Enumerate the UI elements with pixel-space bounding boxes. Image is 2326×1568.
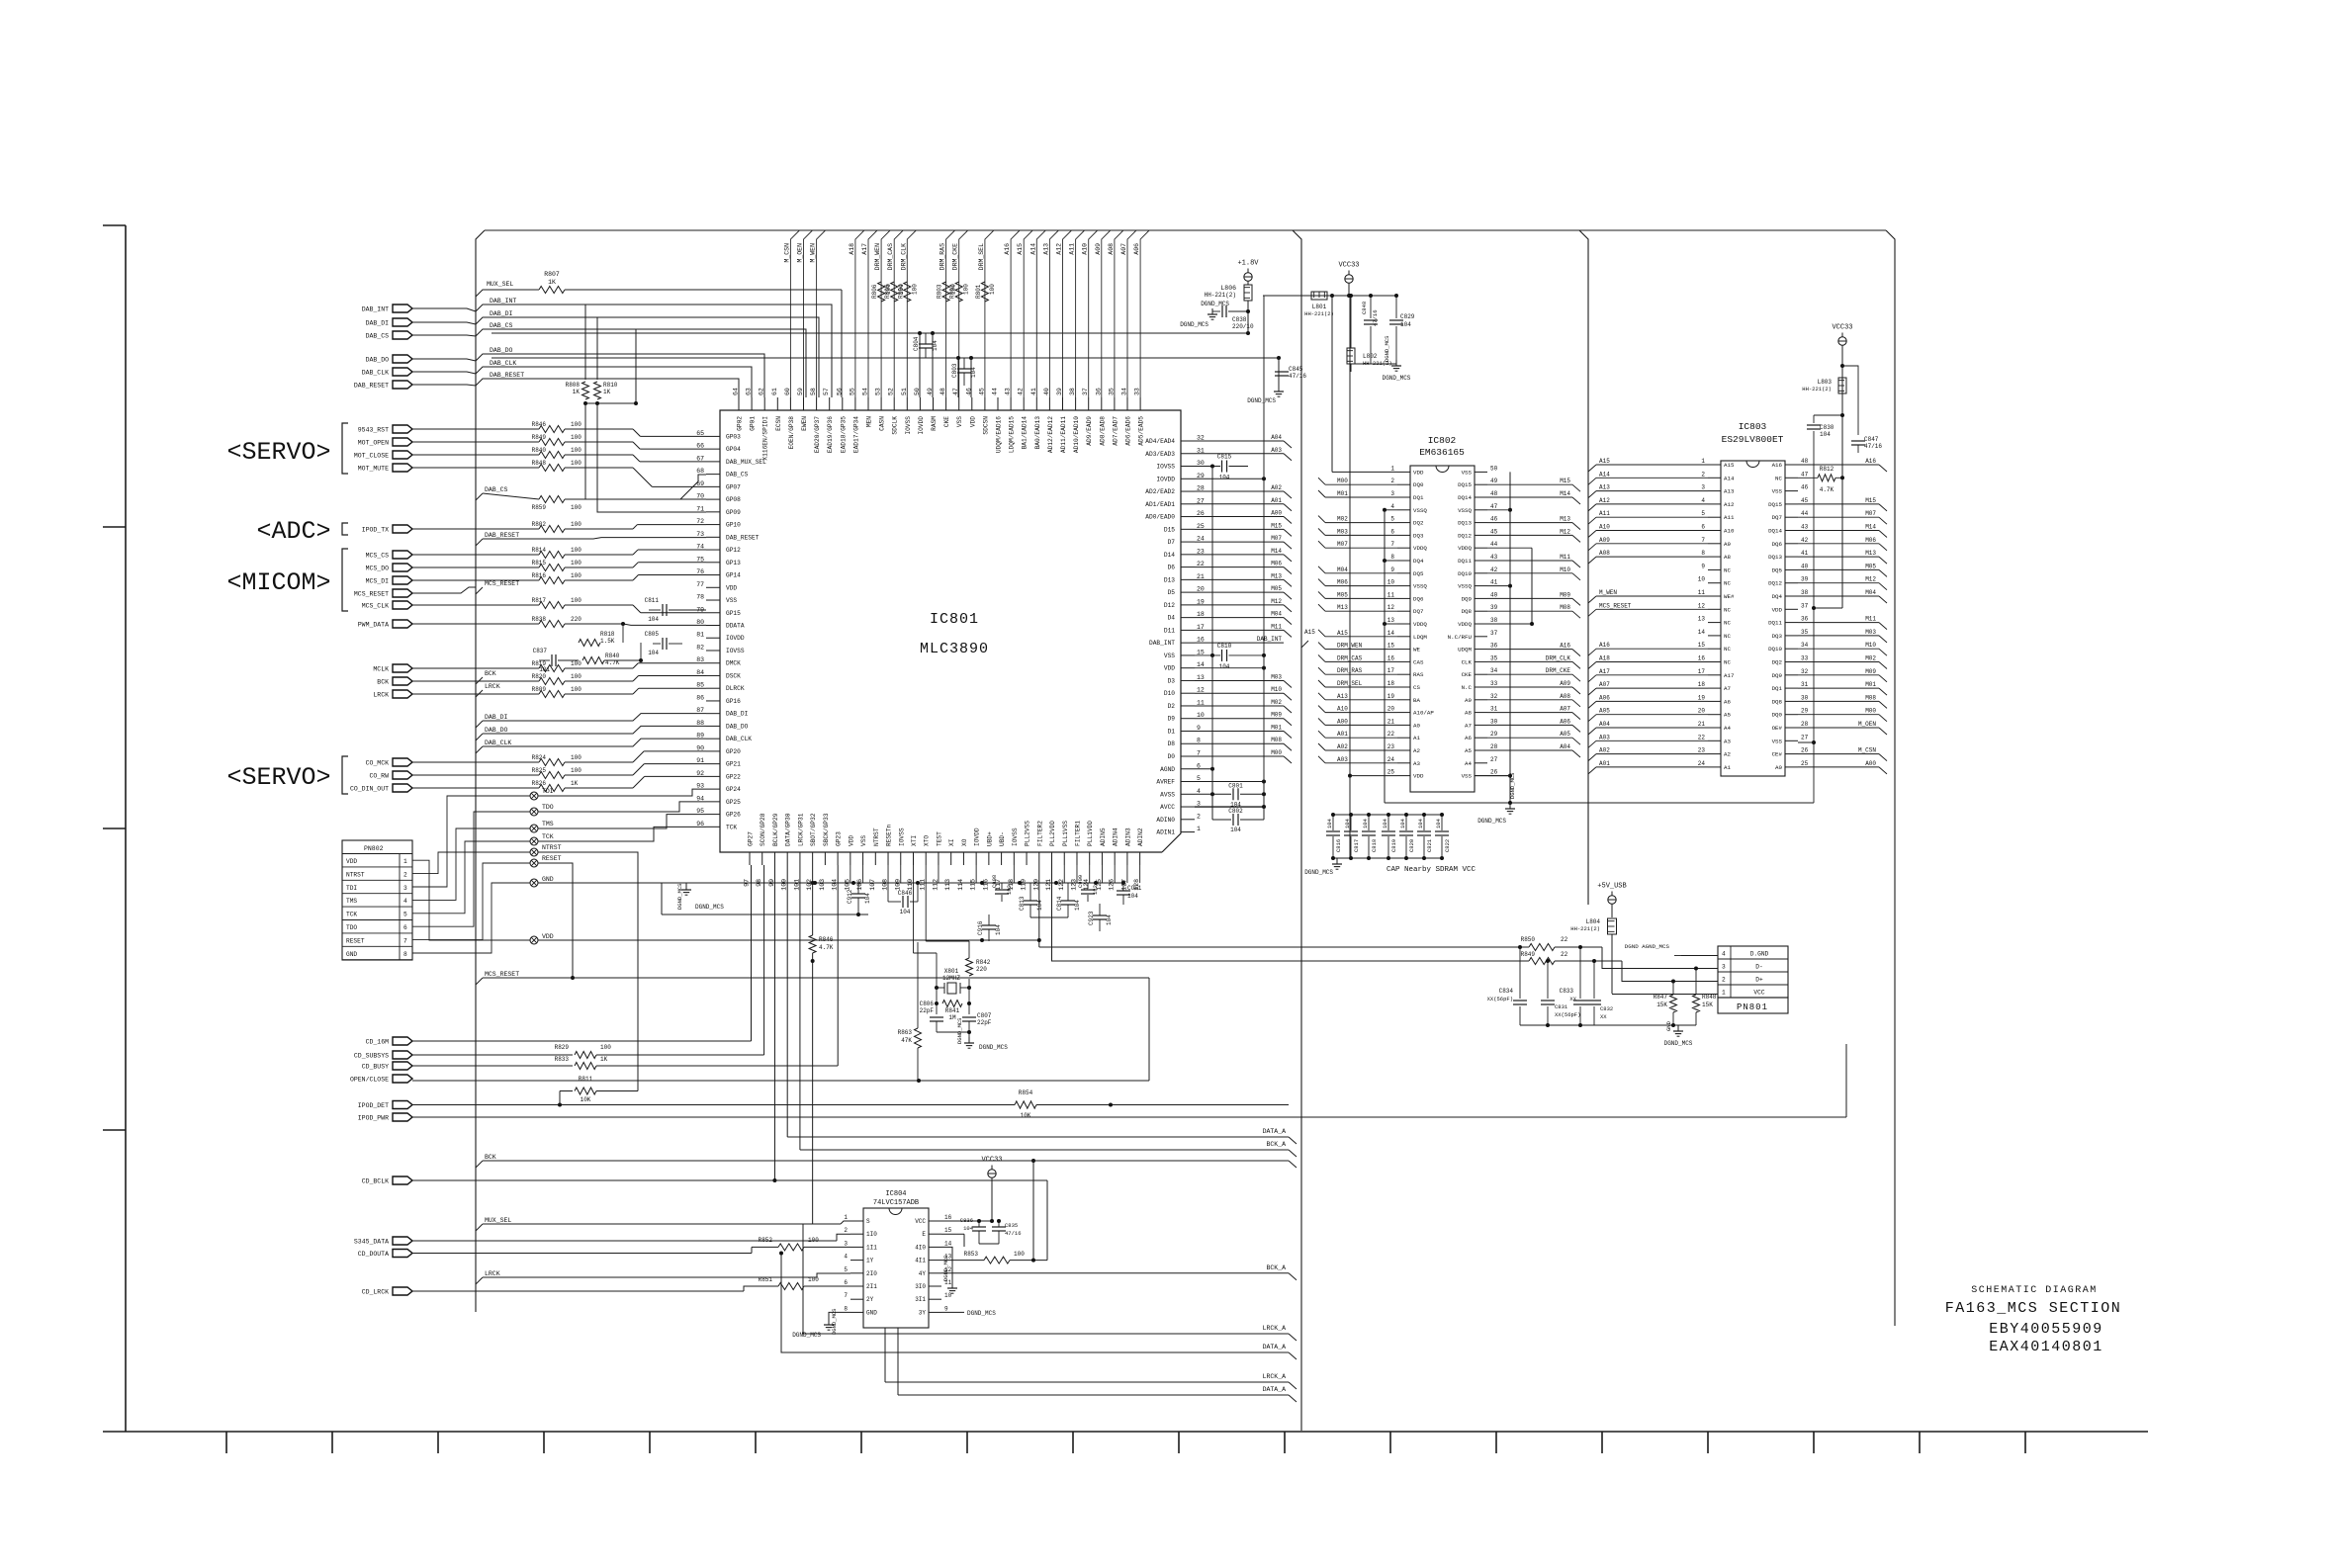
svg-text:FILTER2: FILTER2 (1036, 821, 1043, 846)
wire IC803 pin18 left (1596, 687, 1708, 689)
svg-text:28: 28 (1197, 485, 1205, 492)
wire IC802 pin 14 left (1318, 630, 1325, 637)
svg-text:C817: C817 (1353, 839, 1360, 852)
wire pin100 drop DATA_A (786, 865, 788, 1137)
svg-text:23: 23 (1197, 548, 1205, 555)
wire vcc33 down (1348, 283, 1350, 296)
IC801 pin 86 stub (706, 700, 720, 702)
IC801 pin 26 stub (1181, 516, 1195, 518)
svg-text:2: 2 (1701, 471, 1705, 478)
wire TDI to pin 93 (538, 789, 706, 796)
svg-text:22: 22 (1561, 936, 1568, 943)
wire UBD- long (1052, 865, 1529, 961)
svg-text:C835: C835 (1005, 1222, 1018, 1229)
wire A16 vertical to top bus (1011, 230, 1020, 397)
svg-text:D3: D3 (1168, 677, 1176, 684)
svg-text:VSSQ: VSSQ (1458, 507, 1472, 514)
wire IC802 pin 10 left (1318, 579, 1325, 586)
svg-text:UBD-: UBD- (999, 831, 1006, 846)
svg-text:R802: R802 (532, 521, 547, 528)
svg-text:A02: A02 (1337, 743, 1348, 750)
svg-text:A16: A16 (1772, 462, 1783, 469)
IC803 pin 46 (1785, 490, 1798, 492)
svg-text:3: 3 (403, 885, 407, 892)
svg-text:DGND AGND_MCS: DGND AGND_MCS (1625, 943, 1670, 950)
wire LRCK_A bottom (803, 1224, 1289, 1334)
IC802 pin 9 (1397, 572, 1410, 574)
connector tag CO_MCK (393, 758, 412, 766)
svg-text:C834: C834 (1499, 988, 1514, 995)
IC801 pin 52 stub (893, 397, 895, 410)
power VCC33 IC804 (988, 1170, 996, 1177)
svg-text:EAD18/GP35: EAD18/GP35 (840, 416, 847, 453)
IC802 pin 30 (1475, 724, 1487, 726)
IC801 pin 43 stub (1010, 397, 1012, 410)
svg-text:7: 7 (1197, 750, 1201, 757)
svg-text:45: 45 (1801, 497, 1809, 504)
wire DAB_DO elbow (476, 354, 764, 397)
connector tag CD_SUBSYS (393, 1051, 412, 1059)
svg-text:126: 126 (1109, 879, 1116, 891)
IC802 pin 43 (1475, 560, 1487, 562)
frame tick left 1 (103, 224, 126, 226)
svg-text:CO_RW: CO_RW (369, 773, 389, 780)
wire IC802 pin 7 left (1318, 541, 1325, 548)
IC802 pin 36 (1475, 649, 1487, 651)
IC802 pin 29 (1475, 737, 1487, 739)
svg-text:AD4/EAD4: AD4/EAD4 (1145, 438, 1175, 445)
IC801 pin 6 stub (1181, 768, 1195, 770)
svg-text:8: 8 (844, 1305, 848, 1312)
IC801 pin 5 stub (1181, 781, 1195, 783)
IC801 pin 108 stub (887, 852, 889, 865)
svg-text:R863: R863 (898, 1029, 913, 1036)
svg-text:L804: L804 (1586, 918, 1601, 925)
svg-text:M02: M02 (1865, 655, 1876, 662)
svg-text:BA0/EAD13: BA0/EAD13 (1034, 416, 1041, 450)
svg-text:1: 1 (844, 1214, 848, 1221)
svg-text:MCLK: MCLK (373, 666, 389, 673)
IC801 pin 24 stub (1181, 541, 1195, 543)
svg-text:A6: A6 (1465, 735, 1472, 741)
svg-text:CKE: CKE (943, 416, 950, 427)
svg-text:3: 3 (1390, 490, 1394, 497)
test point TDO (530, 808, 538, 816)
IC804 pin 14 (929, 1246, 941, 1248)
svg-text:A08: A08 (1108, 243, 1115, 255)
svg-text:104: 104 (1036, 900, 1043, 911)
svg-text:DQ13: DQ13 (1768, 554, 1782, 561)
svg-text:104: 104 (970, 367, 977, 378)
svg-text:4I0: 4I0 (915, 1244, 926, 1251)
svg-text:DMCK: DMCK (726, 660, 741, 667)
svg-text:A17: A17 (1599, 668, 1610, 675)
IC801 pin 122 stub (1063, 852, 1065, 865)
svg-text:EBY40055909: EBY40055909 (1989, 1321, 2103, 1338)
svg-text:35: 35 (1108, 388, 1115, 395)
svg-text:DAB_DI: DAB_DI (366, 320, 390, 327)
node edge label BCK (476, 677, 483, 684)
connector tag MCS_DI (393, 576, 412, 584)
IC801 pin 74 stub (706, 549, 720, 551)
svg-text:25: 25 (1801, 760, 1809, 767)
IC803 pin 16 (1708, 661, 1721, 663)
wire A08 vertical to top bus (1115, 230, 1123, 397)
svg-text:30: 30 (1490, 718, 1498, 725)
wire DRM_RAS vertical to top bus (946, 230, 955, 397)
svg-text:8: 8 (1197, 738, 1201, 744)
wire A10 vertical to top bus (1089, 230, 1098, 397)
svg-text:VSS: VSS (1772, 488, 1783, 495)
svg-text:IPOD_PWR: IPOD_PWR (358, 1115, 389, 1122)
resistor R803 (942, 282, 949, 302)
svg-text:D2: D2 (1168, 703, 1176, 710)
svg-text:82: 82 (696, 644, 704, 651)
svg-text:100: 100 (963, 284, 970, 295)
IC801 pin 2 stub (1181, 819, 1195, 821)
svg-text:MCS_DI: MCS_DI (366, 578, 390, 585)
IC801 pin 47 stub (958, 397, 960, 410)
IC801 pin 38 stub (1075, 397, 1077, 410)
svg-text:TEST: TEST (936, 831, 942, 846)
IC802 pin 50 (1475, 471, 1487, 473)
frame tick bottom 18 (2024, 1432, 2026, 1453)
IC803 pin 5 (1708, 516, 1721, 518)
svg-text:R842: R842 (976, 959, 991, 966)
svg-text:C845: C845 (1289, 366, 1303, 373)
svg-text:100: 100 (600, 1044, 611, 1051)
IC801 pin 76 stub (706, 574, 720, 576)
svg-text:HH-221(2): HH-221(2) (1570, 925, 1600, 932)
svg-text:100: 100 (571, 460, 581, 467)
connector tag IPOD_DET (393, 1101, 412, 1109)
wire DGND rail2 below IC801 (662, 914, 868, 915)
wire DRM_WEN vertical to top bus (881, 230, 890, 397)
svg-text:GP15: GP15 (726, 610, 741, 617)
IC801 pin 66 stub (706, 448, 720, 450)
frame tick bottom 4 (543, 1432, 545, 1453)
resistor R847 (1670, 995, 1677, 1012)
svg-text:1I0: 1I0 (866, 1231, 877, 1238)
IC801 pin 9 stub (1181, 730, 1195, 732)
svg-text:EM636165: EM636165 (1419, 447, 1465, 458)
ground xtal DGND_MCS (968, 1037, 970, 1043)
resistor R859 wire DAB_CS (483, 493, 539, 499)
svg-text:D9: D9 (1168, 716, 1176, 723)
wire IC801 pin 7 bus (1195, 755, 1284, 757)
svg-text:R812: R812 (1820, 466, 1834, 473)
svg-text:S345_DATA: S345_DATA (354, 1239, 389, 1246)
svg-text:IC801: IC801 (930, 611, 979, 628)
svg-text:DRM_CKE: DRM_CKE (1546, 667, 1571, 674)
wire MUX_SEL (476, 290, 539, 297)
IC802 pin 2 (1397, 483, 1410, 485)
wire IC803 pin33 right (1798, 661, 1879, 663)
svg-text:M12: M12 (1271, 598, 1282, 605)
resistor R863 (915, 1028, 922, 1048)
IC801 pin 22 stub (1181, 566, 1195, 568)
svg-text:100: 100 (1014, 1251, 1025, 1258)
node edge label LRCK (476, 690, 483, 697)
svg-text:12: 12 (1197, 687, 1205, 694)
IC801 pin 98 stub (761, 852, 763, 865)
wire IC803 pin31 right (1798, 687, 1879, 689)
svg-text:1: 1 (1390, 465, 1394, 472)
svg-text:75: 75 (696, 556, 704, 563)
svg-text:ADIN5: ADIN5 (1100, 828, 1107, 846)
IC801 pin 90 stub (706, 750, 720, 752)
wire IC802 vss right 24 (1487, 775, 1510, 777)
svg-text:107: 107 (869, 879, 876, 891)
svg-text:76: 76 (696, 568, 704, 575)
svg-text:77: 77 (696, 581, 704, 588)
IC801 pin 84 stub (706, 674, 720, 676)
svg-text:22: 22 (1387, 731, 1395, 738)
svg-text:7: 7 (1701, 537, 1705, 544)
wire pin45b up (970, 358, 972, 397)
svg-text:VDD: VDD (1164, 665, 1175, 672)
resistor R846 (809, 935, 816, 953)
svg-text:31: 31 (1801, 681, 1809, 688)
wire pin49 up (932, 333, 934, 397)
svg-text:VDDQ: VDDQ (1413, 545, 1427, 552)
capacitor C831 (1547, 961, 1549, 999)
IC803 pin 47 (1785, 477, 1798, 479)
svg-text:A11: A11 (1599, 510, 1610, 517)
svg-text:4: 4 (844, 1254, 848, 1261)
svg-text:57: 57 (823, 388, 830, 395)
IC803 pin 9 (1708, 568, 1721, 570)
wire tag DAB_CLK to edge (412, 372, 476, 374)
svg-text:IOVSS: IOVSS (1156, 464, 1175, 471)
wire DAB_DI elbow (476, 317, 819, 397)
IC801 pin 105 stub (850, 852, 851, 865)
IC801 pin 58 stub (816, 397, 818, 410)
svg-text:BCK: BCK (485, 1154, 496, 1161)
svg-text:C816: C816 (1335, 839, 1342, 852)
svg-text:TCK: TCK (542, 833, 554, 840)
wire A17 vertical to top bus (868, 230, 877, 397)
IC804 pin 9 (929, 1311, 941, 1313)
svg-text:42: 42 (1801, 537, 1809, 544)
wire vddq right rail (1531, 548, 1533, 624)
frame tick bottom 6 (755, 1432, 757, 1453)
wire BCK_A top (800, 1149, 1289, 1151)
IC803 pin 18 (1708, 687, 1721, 689)
connector tag MCLK (393, 664, 412, 672)
wire CD_BCLK (412, 1179, 1047, 1181)
svg-text:R838: R838 (532, 616, 547, 623)
svg-text:DAB_CS: DAB_CS (485, 486, 508, 493)
IC802 EM636165 body (1410, 466, 1475, 792)
IC803 pin 29 (1785, 714, 1798, 716)
svg-text:M05: M05 (1865, 563, 1876, 569)
IC802 pin 27 (1475, 762, 1487, 764)
connector tag LRCK (393, 690, 412, 698)
svg-text:A13: A13 (1042, 243, 1049, 255)
svg-text:AD7/EAD7: AD7/EAD7 (1112, 416, 1118, 446)
svg-text:1K: 1K (600, 1056, 608, 1063)
IC802 pin 25 (1397, 775, 1410, 777)
svg-text:R826: R826 (532, 780, 547, 787)
svg-text:NTRST: NTRST (542, 844, 562, 851)
svg-text:M01: M01 (1865, 681, 1876, 688)
svg-text:36: 36 (1490, 643, 1498, 650)
IC802 pin 41 (1475, 585, 1487, 587)
svg-text:IOVSS: IOVSS (1012, 828, 1019, 846)
svg-text:DGND_MCS: DGND_MCS (979, 1044, 1008, 1051)
connector tag MCS_RESET (393, 589, 412, 597)
svg-text:DQ10: DQ10 (1458, 570, 1472, 577)
svg-text:106: 106 (856, 879, 863, 891)
svg-text:A03: A03 (1271, 447, 1282, 454)
connector tag BCK (393, 677, 412, 685)
wire tag DAB_DO to edge (412, 359, 476, 361)
wire GND rail (538, 882, 692, 884)
svg-text:182: 182 (1092, 885, 1099, 895)
connector tag PWM_DATA (393, 620, 412, 628)
svg-text:DGND_MCS: DGND_MCS (956, 1017, 963, 1044)
svg-text:DAB_DO: DAB_DO (366, 357, 390, 364)
svg-text:A00: A00 (1271, 510, 1282, 517)
frame tick bottom 1 (225, 1432, 227, 1453)
svg-text:DGND_MCS: DGND_MCS (942, 1255, 949, 1281)
wire IC802 pin 39 right corridor (1487, 610, 1572, 612)
svg-text:50: 50 (1490, 465, 1498, 472)
IC802 pin 49 (1475, 483, 1487, 485)
IC801 pin 30 stub (1181, 466, 1195, 468)
wire DAB_CS drop (635, 329, 637, 403)
svg-text:DQ9: DQ9 (1462, 595, 1473, 602)
wire IC802 pin 49 right corridor (1487, 483, 1572, 485)
svg-text:54: 54 (862, 388, 869, 395)
svg-text:DQ0: DQ0 (1413, 481, 1424, 488)
svg-text:M_OEN: M_OEN (797, 243, 804, 263)
svg-text:R840: R840 (532, 447, 547, 454)
wire IC803 pin11 left (1596, 595, 1708, 597)
svg-text:182: 182 (1006, 885, 1013, 895)
svg-text:27: 27 (1490, 756, 1498, 763)
svg-text:C814: C814 (1056, 896, 1063, 911)
svg-text:A18: A18 (1599, 655, 1610, 662)
svg-text:M08: M08 (1560, 604, 1570, 611)
svg-text:VCC33: VCC33 (1338, 262, 1359, 270)
wire DGND rail below IC801 (692, 882, 1123, 884)
IC801 pin 8 stub (1181, 742, 1195, 744)
wire IC801 pin 20 bus (1195, 591, 1284, 593)
svg-text:D-: D- (1755, 964, 1762, 971)
svg-text:96: 96 (696, 821, 704, 828)
IC801 pin 4 stub (1181, 793, 1195, 795)
wire IC802 pin 16 left (1318, 654, 1325, 661)
connector PN801 body (1718, 946, 1788, 998)
svg-text:1.5K: 1.5K (600, 638, 615, 645)
svg-text:CD_BCLK: CD_BCLK (362, 1178, 389, 1185)
svg-text:1K: 1K (573, 389, 581, 395)
svg-text:CD_16M: CD_16M (366, 1039, 390, 1046)
wire IC801 pin 17 bus (1195, 629, 1284, 631)
svg-text:104: 104 (963, 1225, 974, 1232)
svg-text:A04: A04 (1271, 434, 1282, 441)
svg-text:73: 73 (696, 531, 704, 538)
IC803 pin 14 (1708, 635, 1721, 637)
svg-text:26: 26 (1490, 769, 1498, 776)
svg-text:R817: R817 (532, 597, 547, 604)
svg-text:4I1: 4I1 (915, 1258, 926, 1264)
capacitor C838 (1228, 310, 1248, 312)
svg-text:IOVSS: IOVSS (905, 416, 912, 435)
wire IC802 pin 4 left pwr (1385, 509, 1397, 511)
IC803 pin 31 (1785, 687, 1798, 689)
IC804 pin 13 (929, 1260, 941, 1262)
svg-text:D5: D5 (1168, 589, 1176, 596)
svg-text:L803: L803 (1818, 379, 1833, 386)
svg-text:M06: M06 (1271, 561, 1282, 567)
resistor R826 wire to IC801 pin 92 (412, 787, 539, 789)
IC801 pin 125 stub (1101, 852, 1103, 865)
IC801 pin 63 stub (751, 397, 753, 410)
svg-text:M05: M05 (1337, 591, 1348, 598)
svg-text:20: 20 (1197, 586, 1205, 593)
IC803 pin 44 (1785, 516, 1798, 518)
wire IC803 pin21 left (1596, 727, 1708, 729)
IC801 pin 65 stub (706, 435, 720, 437)
svg-text:66: 66 (696, 443, 704, 450)
IC801 pin 13 stub (1181, 679, 1195, 681)
IC801 pin 12 stub (1181, 692, 1195, 694)
IC801 pin 94 stub (706, 801, 720, 803)
svg-text:25: 25 (1197, 523, 1205, 530)
svg-text:VDD: VDD (542, 933, 554, 940)
svg-text:GP12: GP12 (726, 547, 741, 554)
svg-text:18: 18 (1387, 680, 1395, 687)
svg-text:6: 6 (1390, 528, 1394, 535)
connector tag MCS_DO (393, 564, 412, 571)
svg-text:34: 34 (1490, 667, 1498, 674)
wire A07 vertical to top bus (1127, 230, 1136, 397)
IC801 pin 21 stub (1181, 578, 1195, 580)
wire AVREF (1195, 781, 1264, 783)
svg-text:R809: R809 (532, 686, 547, 693)
svg-text:LRCK: LRCK (373, 692, 389, 699)
svg-text:100: 100 (911, 284, 918, 295)
svg-text:15K: 15K (1656, 1002, 1667, 1008)
svg-text:DGND_MCS: DGND_MCS (1477, 818, 1506, 825)
svg-text:XI: XI (948, 838, 955, 846)
svg-text:10: 10 (1698, 576, 1706, 583)
svg-text:VSS: VSS (956, 416, 963, 427)
svg-text:104: 104 (1362, 818, 1369, 828)
connector PN801 name (1718, 998, 1788, 1013)
wire IC801 pin 124 drop (1089, 865, 1091, 883)
svg-text:35: 35 (1490, 654, 1498, 661)
wire TDO to pin 94 (538, 802, 706, 812)
svg-text:C830: C830 (1820, 424, 1834, 431)
svg-text:MEN: MEN (866, 416, 873, 427)
junction dot L806 (1246, 309, 1250, 313)
wire IC801 pin 23 bus (1195, 554, 1284, 556)
bracket SERVO (342, 423, 348, 474)
svg-text:1M: 1M (948, 1014, 956, 1021)
wire VDD pin14 (1195, 667, 1264, 669)
svg-text:BA1/EAD14: BA1/EAD14 (1022, 416, 1029, 450)
svg-text:R841: R841 (945, 1007, 960, 1014)
svg-text:22: 22 (1197, 561, 1205, 567)
svg-text:BA: BA (1413, 697, 1420, 704)
wire DAB_CS elbow (476, 329, 806, 397)
wire S345_DATA (412, 1240, 837, 1242)
frame tick left 5 (103, 1431, 126, 1433)
